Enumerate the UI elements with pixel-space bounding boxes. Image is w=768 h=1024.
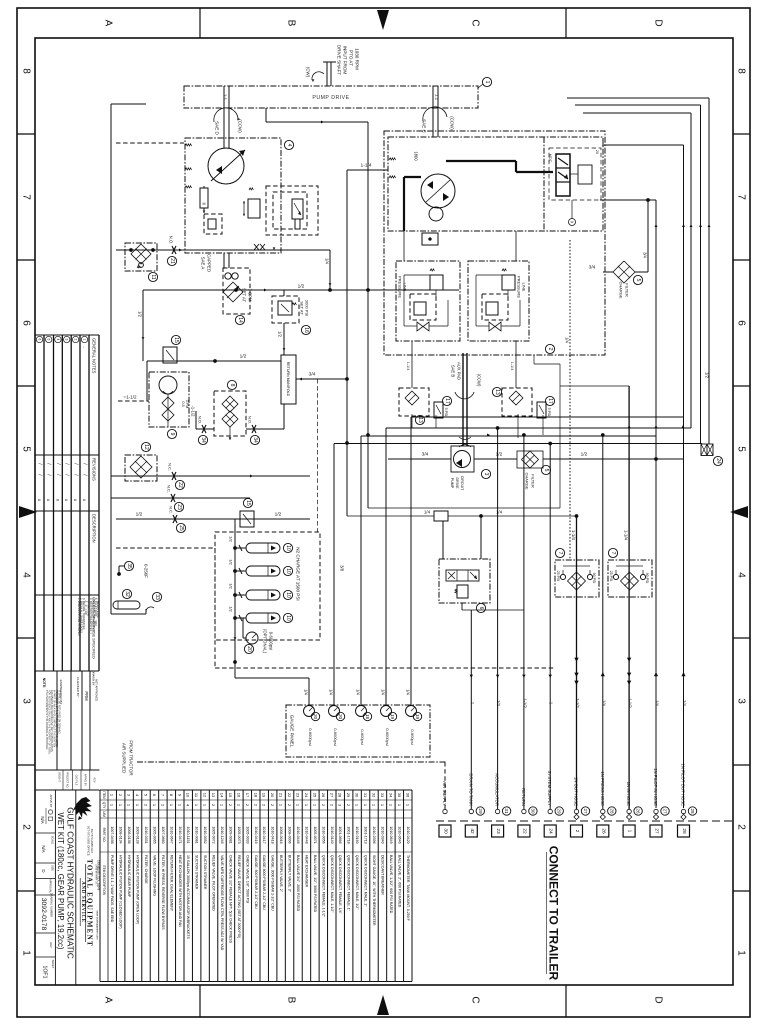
svg-text:1/2: 1/2	[496, 700, 501, 706]
svg-text:3: 3	[21, 698, 32, 704]
pressure box outlet 1-1/4 feeds	[411, 341, 413, 388]
svg-text:RETURN FILTER, DUAL ELEMENT: RETURN FILTER, DUAL ELEMENT	[169, 855, 173, 912]
svg-text:N/A: N/A	[40, 816, 45, 823]
svg-text:0-6000psi: 0-6000psi	[333, 728, 338, 746]
svg-text:25: 25	[178, 525, 184, 531]
svg-text:BALL VALVE 3/4", 2000 PSI RATE: BALL VALVE 3/4", 2000 PSI RATED	[296, 855, 300, 912]
pump outlet lines	[223, 253, 225, 268]
svg-text:B: B	[286, 997, 297, 1004]
svg-text:19: 19	[415, 714, 420, 720]
svg-text:1-1/4: 1-1/4	[406, 362, 410, 371]
right pump shaft	[432, 86, 434, 137]
svg-text:8: 8	[21, 68, 32, 74]
svg-text:APPVD BY: APPVD BY	[49, 795, 53, 808]
connector box 42	[465, 825, 477, 837]
balloon item 22	[175, 480, 184, 489]
svg-text:3/4: 3/4	[422, 452, 429, 458]
svg-text:N.C.: N.C.	[168, 463, 173, 471]
svg-text:33: 33	[380, 793, 385, 798]
svg-text:CHECKED BY: CHECKED BY	[76, 677, 80, 697]
svg-text:22: 22	[521, 828, 527, 834]
control dashed box	[266, 186, 318, 235]
title block	[35, 769, 100, 771]
svg-text:32: 32	[372, 793, 377, 798]
svg-text:N/A: N/A	[41, 845, 46, 852]
svg-text:ENGINEERED BY: ENGINEERED BY	[59, 680, 63, 705]
svg-text:1010-0646: 1010-0646	[397, 826, 401, 843]
svg-text:5: 5	[736, 446, 747, 452]
suction line 3	[116, 518, 310, 520]
connector box 27	[650, 825, 662, 837]
check valve item 15	[163, 347, 177, 363]
svg-text:22: 22	[177, 482, 183, 488]
svg-text:90 PSI: 90 PSI	[592, 573, 596, 584]
svg-text:1/2: 1/2	[240, 354, 247, 360]
svg-text:SAE B: SAE B	[451, 365, 456, 378]
svg-text:1008-0134: 1008-0134	[119, 826, 123, 843]
balloon item 28	[688, 807, 696, 815]
balloon item 19	[388, 712, 396, 720]
svg-text:5: 5	[543, 469, 549, 472]
svg-text:1007-0498: 1007-0498	[110, 826, 114, 843]
balloon item 1	[482, 77, 491, 86]
trailer line 1N PRESS HOSE	[601, 809, 605, 813]
svg-text:12: 12	[203, 793, 208, 798]
svg-text:1/2: 1/2	[229, 606, 234, 612]
svg-text:VALVE MFD CARTRIDGE FLOW CTRL: VALVE MFD CARTRIDGE FLOW CTRL PRESS ADJ …	[220, 855, 224, 951]
svg-text:2: 2	[736, 824, 747, 830]
svg-text:1: 1	[21, 950, 32, 956]
control inner dashed box	[549, 148, 601, 200]
balloon item 27	[581, 807, 589, 815]
svg-text:35: 35	[397, 793, 402, 798]
svg-text:AIR SUPPLY: AIR SUPPLY	[442, 781, 447, 806]
svg-text:4: 4	[736, 572, 747, 578]
svg-text:6: 6	[21, 320, 32, 326]
svg-text:APPVD BY: APPVD BY	[84, 774, 87, 786]
closed loop piston pump assembly item 2	[384, 131, 605, 355]
svg-text:23: 23	[296, 793, 301, 798]
svg-text:1010-0446: 1010-0446	[296, 826, 300, 843]
svg-text:D: D	[653, 19, 664, 26]
svg-text:1001-1713: 1001-1713	[364, 826, 368, 843]
svg-text:(CCW): (CCW)	[450, 116, 455, 130]
svg-text:1/4: 1/4	[682, 700, 687, 706]
left notes column grid	[35, 334, 99, 336]
svg-text:U/M: U/M	[102, 811, 106, 817]
svg-text:17: 17	[444, 398, 450, 404]
svg-text:1008-0006: 1008-0006	[288, 826, 292, 843]
balloon item 17	[442, 396, 451, 405]
accumulator enclosure	[215, 532, 320, 640]
svg-text:HYDRAULIC PISTON PUMP (OPEN LO: HYDRAULIC PISTON PUMP (OPEN LOOP)	[136, 855, 140, 924]
svg-text:1005-0072: 1005-0072	[212, 826, 216, 843]
svg-text:20: 20	[338, 714, 343, 720]
svg-text:31: 31	[504, 808, 509, 814]
svg-text:16: 16	[303, 327, 309, 333]
svg-text:30: 30	[355, 793, 360, 798]
suction line 2	[111, 497, 250, 499]
svg-text:1010-0418: 1010-0418	[271, 826, 275, 843]
relief cluster B items 13/17	[502, 388, 532, 416]
svg-text:0-6000psi: 0-6000psi	[385, 728, 390, 746]
svg-text:26: 26	[600, 828, 606, 834]
svg-text:1:1: 1:1	[223, 94, 228, 101]
balloon item 24	[713, 456, 722, 465]
balloon item 25	[176, 523, 185, 532]
svg-text:FILTER: FILTER	[531, 474, 536, 488]
svg-text:1/4: 1/4	[565, 337, 570, 343]
svg-text:NOT APPROVED: NOT APPROVED	[95, 679, 99, 701]
svg-text:NOTE:: NOTE:	[42, 678, 46, 689]
svg-text:28: 28	[690, 808, 695, 814]
balloon item 33	[152, 592, 161, 601]
svg-text:11: 11	[150, 274, 156, 279]
svg-text:A: A	[103, 20, 114, 27]
svg-text:817-573-2688 FAX: 817-573-2688 FAX	[90, 829, 94, 853]
balloon item 20	[311, 712, 319, 720]
balloon item 31	[502, 807, 510, 815]
svg-text:PRESSURE: PRESSURE	[517, 276, 522, 298]
balloon item 35	[124, 561, 133, 570]
svg-text:19: 19	[262, 793, 267, 798]
balloon item 21	[167, 256, 176, 265]
svg-text:M: M	[203, 202, 206, 206]
wire top elbow	[265, 108, 267, 122]
svg-text:AND SERVICE: AND SERVICE	[80, 881, 85, 923]
svg-text:18: 18	[365, 714, 370, 720]
optional gauge	[242, 618, 244, 638]
svg-text:1N PILOT IN HOSE: 1N PILOT IN HOSE	[653, 768, 658, 806]
balloon item 5	[541, 465, 550, 474]
balloon item 5	[633, 275, 642, 284]
svg-text:32: 32	[124, 591, 130, 597]
svg-text:GULF COAST HYDRAULIC SCHEMATIC: GULF COAST HYDRAULIC SCHEMATIC	[66, 807, 75, 959]
connector box 22	[518, 825, 530, 837]
svg-text:1/4: 1/4	[655, 700, 660, 706]
svg-text:B: B	[286, 20, 297, 27]
accumulator capsule 2	[246, 566, 280, 576]
quick disconnect item 24	[701, 444, 713, 456]
balloon item 29	[555, 807, 563, 815]
svg-text:REVISIONS: REVISIONS	[92, 458, 97, 481]
svg-text:16: 16	[236, 793, 241, 798]
svg-text:7: 7	[610, 552, 616, 555]
svg-text:24: 24	[715, 458, 721, 464]
gauge panel	[286, 705, 430, 757]
panel gauge 1	[304, 706, 315, 717]
svg-text:13: 13	[417, 417, 423, 423]
svg-text:15 GALLON 3000psi ACCUMULATOR: 15 GALLON 3000psi ACCUMULATOR W/BRACKETS	[186, 855, 190, 940]
svg-text:QUICK DISCONNECT, MALE, 1/2": QUICK DISCONNECT, MALE, 1/2"	[355, 855, 359, 910]
svg-text:1010-0052: 1010-0052	[203, 826, 207, 843]
balloon item 16	[301, 325, 310, 334]
svg-text:1-1/4: 1-1/4	[624, 530, 629, 541]
svg-text:C: C	[470, 19, 481, 26]
svg-text:N.O.: N.O.	[248, 416, 253, 424]
svg-text:DESCRIPTION: DESCRIPTION	[92, 514, 97, 543]
air supply dash-dot line	[137, 761, 447, 763]
logo eagle	[73, 797, 92, 818]
svg-text:5: 5	[47, 339, 51, 341]
svg-text:N2 CHARGE AT 1500 PSI: N2 CHARGE AT 1500 PSI	[296, 547, 301, 600]
svg-text:3/4: 3/4	[643, 252, 648, 258]
svg-text:28: 28	[338, 793, 343, 798]
svg-text:27: 27	[663, 808, 668, 814]
relief valve item 16 SET AT 3000 PSI	[283, 290, 285, 296]
trailer line ACCUMULATOR	[495, 809, 499, 813]
svg-text:4: 4	[286, 144, 292, 147]
svg-text:1010-0417: 1010-0417	[262, 826, 266, 843]
svg-text:1010-0647: 1010-0647	[169, 826, 173, 843]
svg-text:13: 13	[494, 389, 500, 395]
svg-text:8: 8	[229, 384, 235, 387]
svg-text:1008-0136: 1008-0136	[127, 826, 131, 843]
svg-text:=1-1/2: =1-1/2	[123, 395, 137, 400]
svg-text:GAUGE, 3000 PSI/BAR 2-1/2" CBU: GAUGE, 3000 PSI/BAR 2-1/2" CBU	[271, 855, 275, 911]
drive shaft input	[326, 62, 328, 86]
charge filter item 5 top	[613, 261, 635, 283]
svg-text:BALL VALVE, 1-1/2", 600 PSI RA: BALL VALVE, 1-1/2", 600 PSI RATED	[389, 855, 393, 914]
mid vertical buses to gauges	[333, 444, 335, 706]
svg-text:29: 29	[346, 793, 351, 798]
svg-text:10: 10	[285, 615, 291, 621]
reservoir dashed enclosure	[116, 547, 215, 549]
svg-text:HEAT EXCHANGER WITH MOTOR AND: HEAT EXCHANGER WITH MOTOR AND FAN	[178, 855, 182, 927]
svg-text:0-6000psi: 0-6000psi	[269, 632, 274, 650]
svg-text:SUCTION STRAINER: SUCTION STRAINER	[195, 855, 199, 890]
balloon item 10	[283, 566, 292, 575]
balloon item 18	[363, 712, 371, 720]
balloon item 17	[545, 396, 554, 405]
pressure line box R	[468, 261, 529, 341]
svg-text:PUMP DRIVE 1:1, 2 WAY PADS, SA: PUMP DRIVE 1:1, 2 WAY PADS, SAE EBD	[110, 855, 114, 923]
connector box 26	[597, 825, 609, 837]
svg-text:3: 3	[65, 339, 69, 341]
svg-text:3000 PSI: 3000 PSI	[305, 300, 310, 316]
balloon item 20	[244, 644, 253, 653]
connector box 2	[571, 825, 583, 837]
svg-text:APPROVAL: APPROVAL	[49, 879, 53, 893]
svg-text:1-1/2: 1-1/2	[575, 698, 580, 708]
gear pump suction/pressure lines	[388, 458, 451, 460]
svg-text:10: 10	[285, 545, 291, 551]
svg-text:QUICK DISCONNECT, FEMALE, 1-1/: QUICK DISCONNECT, FEMALE, 1-1/2"	[321, 855, 325, 918]
svg-text:12: 12	[143, 444, 149, 450]
pump P1 circle	[208, 148, 244, 184]
svg-text:1010-1151: 1010-1151	[186, 827, 190, 844]
svg-text:23: 23	[176, 504, 182, 510]
balloon item 10	[283, 590, 292, 599]
svg-text:QUICK DISCONNECT, MALE, 1": QUICK DISCONNECT, MALE, 1"	[364, 855, 368, 907]
svg-text:5: 5	[635, 279, 641, 282]
svg-text:0-250F: 0-250F	[144, 564, 149, 578]
svg-text:CIRCUIT: CIRCUIT	[460, 476, 464, 491]
panel gauge 5	[406, 706, 417, 717]
heat exchanger item 9	[146, 361, 148, 401]
svg-text:1010-1246: 1010-1246	[220, 826, 224, 843]
svg-text:6: 6	[38, 339, 42, 341]
svg-text:23: 23	[495, 828, 501, 834]
svg-text:34: 34	[200, 437, 206, 443]
svg-text:BUTTERFLY VALVE, 3": BUTTERFLY VALVE, 3"	[288, 855, 292, 893]
svg-text:1/4: 1/4	[406, 689, 411, 695]
svg-text:22: 22	[287, 793, 292, 798]
svg-text:N.C.: N.C.	[169, 506, 174, 514]
svg-text:5 PSI: 5 PSI	[547, 408, 551, 417]
svg-text:REV: REV	[93, 778, 96, 783]
panel gauge 4	[381, 706, 392, 717]
svg-text:CAD FILE: CAD FILE	[75, 775, 78, 786]
svg-text:1010-0081: 1010-0081	[195, 826, 199, 843]
svg-text:5: 5	[21, 446, 32, 452]
svg-text:QTY: QTY	[102, 802, 106, 809]
svg-text:28: 28	[609, 808, 614, 814]
svg-text:31: 31	[363, 793, 368, 798]
svg-text:GAUGE 8000 PSI/BAR 2-1/2" CBU: GAUGE 8000 PSI/BAR 2-1/2" CBU	[262, 855, 266, 910]
return manifold	[281, 355, 296, 404]
svg-text:1001-0666: 1001-0666	[338, 826, 342, 843]
parts list table	[100, 789, 412, 791]
svg-text:20: 20	[313, 714, 318, 720]
svg-text:GAUGE PANEL: GAUGE PANEL	[290, 715, 295, 748]
svg-text:6: 6	[478, 607, 484, 610]
svg-text:SCALE: SCALE	[51, 836, 55, 845]
trailer line RETURN	[522, 809, 526, 813]
wire from pump bottom	[281, 249, 330, 251]
thick charge lines	[446, 160, 516, 162]
svg-text:1010-0471: 1010-0471	[178, 826, 182, 843]
svg-text:26: 26	[321, 793, 326, 798]
svg-text:CHARGE: CHARGE	[525, 472, 530, 489]
pump box bottom ports	[254, 244, 259, 250]
svg-text:10: 10	[285, 568, 291, 574]
svg-text:33: 33	[154, 594, 160, 600]
svg-text:7: 7	[21, 194, 32, 200]
trailer separation dash-dot line	[436, 820, 733, 822]
svg-text:1/2: 1/2	[581, 452, 588, 458]
svg-text:29: 29	[478, 808, 483, 814]
svg-text:5 PSI: 5 PSI	[444, 408, 448, 417]
left pump shaft	[223, 86, 225, 148]
svg-text:30: 30	[530, 808, 535, 814]
loop flushing valve item 6	[439, 559, 490, 603]
svg-text:N.C.: N.C.	[167, 485, 172, 493]
svg-text:3/8: 3/8	[340, 565, 345, 571]
misc bottom links	[368, 507, 560, 509]
svg-text:FROM TRACTOR: FROM TRACTOR	[129, 740, 134, 775]
svg-text:18: 18	[253, 793, 258, 798]
charge filter item 5 lower	[517, 451, 543, 468]
svg-text:1/2: 1/2	[705, 372, 710, 378]
svg-text:0-6000psi: 0-6000psi	[308, 728, 313, 746]
svg-text:90 PSI: 90 PSI	[645, 573, 649, 584]
svg-text:1/2: 1/2	[278, 331, 283, 337]
svg-text:SHEET: SHEET	[51, 960, 55, 969]
accumulator capsule 4	[246, 613, 280, 623]
balloon item 14	[235, 315, 244, 324]
svg-text:6: 6	[736, 320, 747, 326]
svg-text:36: 36	[405, 793, 410, 798]
balloon item 4	[284, 140, 293, 149]
trailer line 1N PILOT OUT HOSE	[681, 809, 685, 813]
svg-text:SIZE: SIZE	[51, 865, 55, 871]
svg-text:1010-0396: 1010-0396	[372, 826, 376, 843]
svg-text:AUX PAD: AUX PAD	[457, 362, 462, 380]
relief cluster A items 13/17	[399, 388, 429, 416]
svg-text:(CCW): (CCW)	[238, 119, 243, 133]
svg-text:42: 42	[469, 828, 475, 834]
pump control valve	[556, 154, 570, 196]
svg-text:REV: REV	[49, 942, 53, 948]
svg-text:PUMP: PUMP	[450, 478, 454, 489]
svg-text:24: 24	[304, 793, 309, 798]
accumulator capsule 3	[246, 590, 280, 600]
svg-text:THERMOMETER, TANK MOUNT, 0-250: THERMOMETER, TANK MOUNT, 0-250 F	[406, 855, 410, 921]
svg-text:1/4: 1/4	[601, 700, 606, 706]
pilot sub box	[204, 214, 222, 234]
svg-text:13: 13	[211, 793, 216, 798]
unless otherwise specified	[35, 594, 99, 596]
balloon item 2	[545, 344, 554, 353]
svg-text:HEAT EXCHANGER: HEAT EXCHANGER	[304, 855, 308, 888]
trailer line SYSTEM SUPPLY	[548, 809, 552, 813]
svg-text:1009-0081: 1009-0081	[228, 826, 232, 843]
svg-text:1: 1	[736, 950, 747, 956]
svg-text:15: 15	[245, 500, 251, 506]
main piston pump assembly (open loop) item 4	[185, 138, 281, 253]
svg-text:W: W	[571, 220, 574, 224]
svg-text:1/4: 1/4	[496, 510, 503, 515]
svg-text:PROJECT NO.: PROJECT NO.	[66, 772, 69, 788]
svg-text:20: 20	[246, 646, 252, 652]
svg-text:1010-0160: 1010-0160	[355, 826, 359, 843]
svg-text:PTO AT: PTO AT	[349, 50, 354, 66]
panel gauge 2	[329, 706, 340, 717]
balloon item 30	[529, 807, 537, 815]
svg-text:CHECK VALVE 1/2" FEMALE NPT, 5: CHECK VALVE 1/2" FEMALE NPT, 5psi CHECK …	[228, 855, 232, 944]
svg-text:VALVE, LOOP FLUSHING: VALVE, LOOP FLUSHING	[152, 855, 156, 896]
svg-text:9: 9	[169, 433, 175, 436]
svg-text:FILTER, CHARGE: FILTER, CHARGE	[144, 855, 148, 884]
svg-text:17: 17	[547, 398, 553, 404]
bus bundle horizontals	[386, 427, 691, 429]
svg-text:1-1/4: 1-1/4	[361, 163, 372, 169]
svg-text:WET KIT (180cc, GEAR PUMP, 19.: WET KIT (180cc, GEAR PUMP, 19.2cc)	[56, 813, 65, 950]
svg-text:CHARGE: CHARGE	[619, 281, 624, 298]
svg-text:15: 15	[228, 793, 233, 798]
svg-text:1: 1	[627, 830, 633, 833]
svg-text:DRIVE SHAFT: DRIVE SHAFT	[337, 45, 342, 76]
svg-text:DESICCANT BREATHER: DESICCANT BREATHER	[380, 855, 384, 895]
svg-text:PUMP DRIVE: PUMP DRIVE	[312, 95, 349, 101]
svg-text:34: 34	[388, 793, 393, 798]
svg-text:PRESSURE: PRESSURE	[398, 276, 403, 298]
svg-text:1-1/2: 1-1/2	[628, 698, 633, 708]
svg-text:1-1/2: 1-1/2	[522, 698, 527, 708]
flow control item 14 SET AT 7 GPM	[223, 268, 250, 314]
svg-text:1005-0071: 1005-0071	[313, 826, 317, 843]
svg-text:1009-0128: 1009-0128	[136, 826, 140, 843]
svg-text:1010-0056: 1010-0056	[321, 826, 325, 843]
svg-text:FILTER: FILTER	[625, 283, 630, 297]
accumulator capsule 1	[246, 543, 280, 553]
balloon item 1	[478, 84, 483, 88]
svg-text:GPM: GPM	[185, 400, 189, 409]
svg-text:25 PSI: 25 PSI	[556, 571, 560, 582]
svg-text:INPUT FROM: INPUT FROM	[343, 46, 348, 75]
balloon item 10	[283, 613, 292, 622]
